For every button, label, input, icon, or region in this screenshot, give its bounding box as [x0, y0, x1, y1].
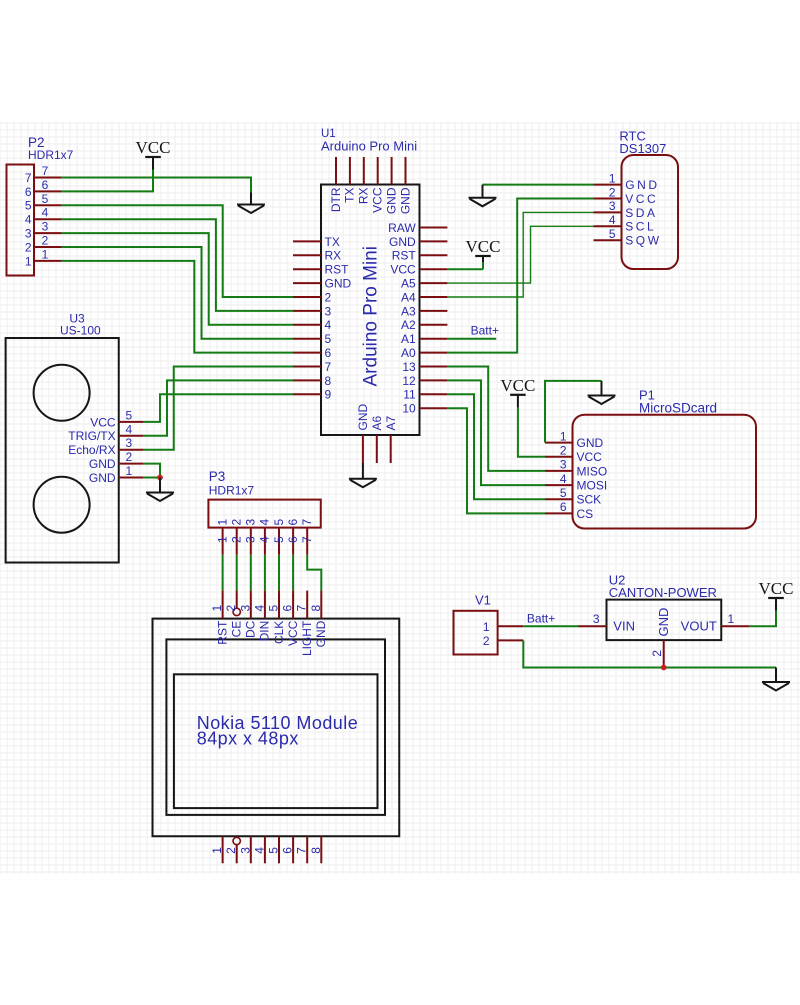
- U1 top pin GND: [398, 157, 412, 214]
- U1 right pin 10: [402, 402, 447, 416]
- svg-text:1: 1: [42, 247, 49, 261]
- U3 pin 4 TRIG/TX: [68, 422, 143, 443]
- LCD top pin 7 LIGHT: [295, 591, 314, 656]
- svg-text:8: 8: [325, 374, 332, 388]
- P2 pin 4 (stub + numbers): [25, 206, 62, 227]
- svg-text:Arduino Pro Mini: Arduino Pro Mini: [321, 138, 417, 153]
- svg-text:2: 2: [224, 847, 238, 854]
- P2 pin 1 (stub + numbers): [25, 247, 62, 268]
- P1 pin 1 GND: [545, 429, 604, 450]
- wire U1 GND pin to ground: [362, 463, 364, 478]
- svg-text:GND: GND: [398, 187, 412, 214]
- wire U3 GND pin2 to junction: [144, 464, 160, 478]
- svg-text:Echo/RX: Echo/RX: [68, 443, 115, 457]
- svg-text:1: 1: [25, 254, 32, 268]
- svg-text:VOUT: VOUT: [681, 619, 717, 634]
- wire RTC VCC to U1 A0: [447, 199, 593, 353]
- svg-text:GND: GND: [89, 471, 116, 485]
- svg-text:GND: GND: [314, 620, 328, 647]
- U3 pin 1 GND: [89, 464, 144, 485]
- svg-text:A6: A6: [370, 415, 384, 430]
- svg-text:Arduino Pro Mini: Arduino Pro Mini: [361, 246, 382, 386]
- svg-text:7: 7: [295, 847, 309, 854]
- U1 bottom pin GND: [356, 404, 370, 464]
- LCD middle frame: [166, 639, 385, 815]
- svg-text:CE: CE: [230, 621, 244, 638]
- wire U3 VCC to U1 pin 9: [144, 394, 293, 422]
- svg-text:DC: DC: [244, 620, 258, 638]
- svg-text:3: 3: [593, 612, 600, 626]
- LCD bottom pin 4: [252, 836, 266, 863]
- svg-text:7: 7: [295, 605, 309, 612]
- svg-text:VCC: VCC: [136, 138, 171, 157]
- IC RTC DS1307: [619, 129, 678, 269]
- svg-text:VCC: VCC: [466, 237, 501, 256]
- svg-text:GND: GND: [356, 404, 370, 431]
- svg-text:A3: A3: [401, 304, 416, 318]
- wire U1 VCC pin to VCC symbol: [447, 256, 483, 269]
- svg-text:2: 2: [560, 444, 567, 458]
- wire P1 GND up to ground: [545, 381, 602, 443]
- connector P3 HDR1x7: [208, 469, 320, 527]
- svg-text:VIN: VIN: [613, 619, 635, 634]
- P2 pin 5 (stub + numbers): [25, 192, 62, 213]
- svg-text:GND: GND: [384, 187, 398, 214]
- svg-text:5: 5: [126, 408, 133, 422]
- svg-text:VCC: VCC: [500, 376, 535, 395]
- ground symbol (P1 GND): [588, 381, 616, 404]
- svg-text:6: 6: [42, 178, 49, 192]
- svg-text:7: 7: [300, 519, 314, 526]
- svg-text:1: 1: [609, 171, 616, 185]
- svg-text:7: 7: [300, 536, 314, 543]
- wire RTC GND to ground: [483, 184, 594, 186]
- junction (U2 GND / ground rail): [661, 665, 667, 671]
- wire V1 pin 1 to U2 VIN (Batt+): [523, 625, 578, 627]
- svg-text:3: 3: [42, 220, 49, 234]
- svg-text:SDA: SDA: [625, 206, 657, 220]
- U1 right pin GND: [389, 235, 447, 249]
- P3 pin 3 (stub + numbers): [244, 519, 258, 555]
- svg-text:TRIG/TX: TRIG/TX: [68, 429, 115, 443]
- U1 top pin VCC: [371, 157, 385, 213]
- svg-text:12: 12: [402, 374, 416, 388]
- U1 left pin 4: [293, 318, 332, 332]
- wire U2 VOUT to VCC: [749, 598, 776, 626]
- U1 left pin 3: [293, 304, 332, 318]
- svg-text:2: 2: [230, 536, 244, 543]
- U1 left pin 8: [293, 374, 332, 388]
- U1 right pin 11: [403, 388, 447, 402]
- wire V1 pin 2 to ground rail: [523, 640, 776, 667]
- svg-text:VCC: VCC: [577, 450, 603, 464]
- LCD bottom pin 8: [309, 836, 323, 863]
- svg-text:6: 6: [281, 605, 295, 612]
- svg-text:TX: TX: [343, 188, 357, 203]
- LCD bottom pin 6: [281, 836, 295, 863]
- svg-text:5: 5: [560, 486, 567, 500]
- U1 left pin RST: [293, 263, 349, 277]
- svg-text:HDR1x7: HDR1x7: [28, 148, 74, 162]
- svg-text:4: 4: [325, 318, 332, 332]
- U1 right pin A0: [401, 346, 447, 360]
- U1 left pin 9: [293, 388, 332, 402]
- U1 right pin A3: [401, 304, 447, 318]
- wire P3 pin 5 to LCD pin 5: [278, 555, 280, 591]
- svg-text:3: 3: [25, 227, 32, 241]
- LCD top pin 4 DIN: [252, 591, 271, 642]
- svg-text:3: 3: [560, 458, 567, 472]
- module U3 US-100 ultrasonic sensor: [6, 312, 119, 563]
- svg-text:4: 4: [252, 605, 266, 612]
- svg-text:7: 7: [325, 360, 332, 374]
- P1 pin 3 MISO: [545, 458, 607, 479]
- wire P2 to U1 pin 4: [62, 233, 293, 325]
- power symbol VCC (net to P2 pin 6): [136, 138, 171, 170]
- svg-text:2: 2: [650, 650, 664, 657]
- svg-text:4: 4: [560, 472, 567, 486]
- svg-text:SCK: SCK: [577, 493, 602, 507]
- svg-text:DTR: DTR: [329, 187, 343, 212]
- U1 left pin GND: [293, 277, 352, 291]
- svg-text:A7: A7: [384, 415, 398, 430]
- wire U3 Echo/RX to U1 pin 7: [144, 367, 293, 450]
- U3 pin 3 Echo/RX: [68, 436, 144, 457]
- LCD bottom pin 1: [210, 836, 224, 863]
- svg-text:6: 6: [25, 185, 32, 199]
- svg-text:7: 7: [42, 164, 49, 178]
- svg-text:VCC: VCC: [759, 579, 794, 598]
- ground symbol (U3 GND): [146, 478, 174, 502]
- U1 right pin RAW: [388, 221, 447, 235]
- P1 pin 2 VCC: [545, 444, 602, 465]
- svg-text:GND: GND: [656, 608, 671, 637]
- svg-text:VCC: VCC: [90, 415, 116, 429]
- svg-text:RAW: RAW: [388, 221, 416, 235]
- RTC pin 4 SCL: [594, 213, 657, 234]
- V1 pin 1: [483, 620, 523, 634]
- LCD bottom pin 5: [267, 836, 281, 863]
- wire U1 pin 11 to P1 SCK: [447, 394, 545, 499]
- U3 pin 2 GND: [89, 450, 144, 471]
- svg-text:RX: RX: [357, 188, 371, 205]
- wire P2 to U1 pin 6: [62, 261, 293, 353]
- svg-text:1: 1: [215, 536, 229, 543]
- svg-text:2: 2: [224, 605, 238, 612]
- svg-text:4: 4: [609, 213, 616, 227]
- svg-text:2: 2: [325, 290, 332, 304]
- junction (U3 GND): [157, 475, 163, 481]
- svg-text:6: 6: [560, 500, 567, 514]
- svg-text:MISO: MISO: [577, 464, 608, 478]
- LCD caption text: [197, 713, 358, 749]
- svg-text:84px x 48px: 84px x 48px: [197, 729, 299, 749]
- svg-text:13: 13: [402, 360, 416, 374]
- svg-text:CLK: CLK: [272, 621, 286, 644]
- U3 transducer circle top: [34, 365, 90, 421]
- wire U3 GND pin1 to junction: [144, 477, 160, 479]
- LCD top pin 5 CLK: [267, 591, 286, 644]
- svg-text:1: 1: [210, 847, 224, 854]
- RTC pin 1 GND: [594, 171, 660, 192]
- svg-text:11: 11: [403, 388, 416, 402]
- ground symbol (power rail): [762, 668, 790, 691]
- svg-text:1: 1: [215, 519, 229, 526]
- svg-text:A0: A0: [401, 346, 416, 360]
- module LCD Nokia 5110 outer frame: [153, 619, 400, 837]
- svg-text:8: 8: [309, 605, 323, 612]
- wire U1 pin 13 to P1 MISO: [447, 367, 545, 471]
- svg-text:8: 8: [309, 847, 323, 854]
- svg-text:9: 9: [325, 388, 332, 402]
- U1 bottom pin A7: [384, 415, 398, 463]
- LCD top pin 2 CE: [224, 591, 243, 638]
- ground symbol (P2 pin 7): [237, 193, 265, 214]
- RTC pin 2 VCC: [594, 185, 659, 206]
- svg-text:3: 3: [244, 519, 258, 526]
- P1 pin 5 SCK: [545, 486, 601, 507]
- svg-text:GND: GND: [325, 277, 352, 291]
- U1 left pin 6: [293, 346, 332, 360]
- wire P3 pin 6 to LCD pin 6: [292, 555, 294, 591]
- svg-text:2: 2: [42, 234, 49, 248]
- svg-text:RST: RST: [392, 249, 417, 263]
- svg-text:VCC: VCC: [390, 263, 416, 277]
- wire P3 pin 3 to LCD pin 3: [250, 555, 252, 591]
- svg-text:1: 1: [560, 429, 567, 443]
- svg-text:3: 3: [244, 536, 258, 543]
- svg-text:6: 6: [286, 519, 300, 526]
- svg-text:4: 4: [126, 422, 133, 436]
- background grid: [0, 122, 800, 874]
- svg-text:3: 3: [238, 847, 252, 854]
- svg-text:LIGHT: LIGHT: [300, 620, 314, 656]
- svg-text:CS: CS: [577, 507, 594, 521]
- wire P3 pin 2 to LCD pin 2: [236, 555, 238, 591]
- svg-text:SCL: SCL: [625, 220, 656, 234]
- svg-text:2: 2: [230, 519, 244, 526]
- U1 right pin A4: [401, 290, 447, 304]
- ground symbol (U1 GND): [349, 479, 377, 488]
- P3 pin 1 (stub + numbers): [215, 519, 229, 555]
- LCD top pin 1 RST: [210, 591, 229, 645]
- V1 pin 2: [483, 634, 523, 648]
- U1 right pin A5: [401, 277, 447, 291]
- svg-text:3: 3: [609, 199, 616, 213]
- svg-text:4: 4: [258, 519, 272, 526]
- P2 pin 6 (stub + numbers): [25, 178, 62, 199]
- svg-text:VCC: VCC: [371, 187, 385, 213]
- U1 right pin A1: [401, 332, 447, 346]
- svg-text:DS1307: DS1307: [619, 141, 666, 156]
- IC U1 Arduino Pro Mini: [321, 128, 420, 435]
- connector P1 MicroSDcard: [573, 388, 757, 529]
- U1 right pin VCC: [390, 263, 447, 277]
- svg-text:RST: RST: [325, 263, 350, 277]
- svg-text:3: 3: [126, 436, 133, 450]
- wire P2 to U1 pin 5: [62, 247, 293, 339]
- svg-text:5: 5: [42, 192, 49, 206]
- wire P3 pin 1 to LCD pin 1: [222, 555, 224, 591]
- P2 pin 2 (stub + numbers): [25, 234, 62, 255]
- svg-text:GND: GND: [577, 436, 604, 450]
- P3 pin 6 (stub + numbers): [286, 519, 300, 555]
- svg-text:4: 4: [42, 206, 49, 220]
- wire P2 to U1 pin 3: [62, 219, 293, 311]
- svg-text:4: 4: [258, 536, 272, 543]
- svg-text:Batt+: Batt+: [527, 611, 555, 625]
- U3 transducer circle bottom: [34, 477, 90, 533]
- wire P1 VCC to VCC symbol: [518, 395, 545, 457]
- U1 top pin GND: [384, 157, 398, 214]
- svg-text:1: 1: [483, 620, 490, 634]
- svg-text:A2: A2: [401, 318, 416, 332]
- U1 left pin 2: [293, 290, 332, 304]
- LCD top pin 3 DC: [238, 591, 257, 638]
- wire U1 pin 10 to P1 CS: [447, 408, 545, 513]
- U1 top pin RX: [357, 157, 371, 204]
- LCD bottom pin 7: [295, 836, 309, 863]
- svg-text:5: 5: [325, 332, 332, 346]
- LCD top pin 8 GND: [309, 591, 328, 648]
- svg-text:2: 2: [483, 634, 490, 648]
- svg-text:4: 4: [25, 213, 32, 227]
- svg-text:7: 7: [25, 171, 32, 185]
- svg-text:GND: GND: [389, 235, 416, 249]
- svg-text:5: 5: [272, 519, 286, 526]
- svg-text:3: 3: [238, 605, 252, 612]
- RTC pin 3 SDA: [594, 199, 658, 220]
- wire P3 pin 7 to LCD pin 8 (jog): [307, 555, 321, 591]
- LCD bottom pin 2: [224, 837, 240, 863]
- connector P2 HDR1x7: [7, 135, 74, 276]
- P3 pin 2 (stub + numbers): [230, 519, 244, 555]
- svg-text:Batt+: Batt+: [471, 324, 499, 338]
- ground symbol (RTC GND): [469, 185, 497, 207]
- svg-text:5: 5: [267, 605, 281, 612]
- P1 pin 4 MOSI: [545, 472, 607, 493]
- svg-text:VCC: VCC: [625, 192, 658, 206]
- wire U1 pin 12 to P1 MOSI: [447, 380, 545, 485]
- P1 pin 6 CS: [545, 500, 593, 521]
- P3 pin 5 (stub + numbers): [272, 519, 286, 555]
- svg-text:6: 6: [325, 346, 332, 360]
- svg-text:1: 1: [126, 464, 133, 478]
- svg-text:VCC: VCC: [286, 620, 300, 646]
- U1 right pin A2: [401, 318, 447, 332]
- wire RTC SDA to U1 A4 (thin): [447, 212, 593, 297]
- RTC pin 5 SQW: [594, 227, 662, 248]
- svg-text:1: 1: [728, 612, 735, 626]
- svg-text:10: 10: [402, 402, 416, 416]
- svg-text:V1: V1: [475, 593, 491, 608]
- svg-text:RX: RX: [325, 249, 342, 263]
- svg-text:A1: A1: [401, 332, 416, 346]
- U2 pin 1 VOUT stub: [721, 612, 749, 626]
- wire P2 to U1 pin 2: [62, 205, 293, 297]
- svg-text:3: 3: [325, 304, 332, 318]
- svg-text:SQW: SQW: [625, 234, 661, 248]
- svg-text:1: 1: [210, 605, 224, 612]
- P3 pin 7 (stub + numbers): [300, 519, 314, 555]
- svg-text:2: 2: [609, 185, 616, 199]
- LCD display area frame: [174, 674, 378, 808]
- U1 left pin TX: [293, 235, 340, 249]
- U1 left pin RX: [293, 249, 341, 263]
- svg-text:A5: A5: [401, 277, 416, 291]
- svg-text:6: 6: [286, 536, 300, 543]
- svg-text:MOSI: MOSI: [577, 479, 608, 493]
- P3 pin 4 (stub + numbers): [258, 519, 272, 555]
- svg-text:5: 5: [272, 536, 286, 543]
- svg-text:GND: GND: [89, 457, 116, 471]
- LCD bottom pin 3: [238, 836, 252, 863]
- wire U3 TRIG/TX to U1 pin 8: [144, 380, 293, 435]
- P2 pin 3 (stub + numbers): [25, 220, 62, 241]
- svg-text:2: 2: [126, 450, 133, 464]
- svg-text:DIN: DIN: [258, 621, 272, 642]
- U1 top pin DTR: [329, 157, 343, 212]
- svg-text:6: 6: [281, 847, 295, 854]
- wire RTC SCL to U1 A5 (thin): [447, 226, 593, 283]
- svg-text:GND: GND: [625, 178, 659, 192]
- wire P2 pin 7 to ground: [62, 178, 251, 193]
- svg-text:TX: TX: [325, 235, 340, 249]
- U1 right pin 13: [402, 360, 447, 374]
- svg-text:5: 5: [267, 847, 281, 854]
- svg-text:RST: RST: [215, 620, 229, 645]
- U1 right pin 12: [402, 374, 447, 388]
- U1 top pin TX: [343, 157, 357, 203]
- svg-text:HDR1x7: HDR1x7: [209, 483, 255, 497]
- svg-text:MicroSDcard: MicroSDcard: [639, 401, 717, 416]
- U2 pin 3 VIN stub: [579, 612, 607, 626]
- wire VCC to P2 pin 6: [62, 170, 153, 192]
- regulator U2 CANTON-POWER: [607, 573, 722, 641]
- P2 pin 7 (stub + numbers): [25, 164, 62, 185]
- svg-text:5: 5: [25, 199, 32, 213]
- connector V1: [454, 593, 498, 655]
- LCD top pin 6 VCC: [281, 591, 300, 646]
- svg-text:5: 5: [609, 227, 616, 241]
- U1 right pin RST: [392, 249, 448, 263]
- svg-text:A4: A4: [401, 290, 416, 304]
- svg-text:2: 2: [25, 240, 32, 254]
- wire P3 pin 4 to LCD pin 4: [264, 555, 266, 591]
- U3 pin 5 VCC: [90, 408, 143, 429]
- svg-text:P3: P3: [209, 469, 226, 484]
- U1 left pin 7: [293, 360, 332, 374]
- svg-text:US-100: US-100: [60, 323, 101, 337]
- svg-text:4: 4: [252, 847, 266, 854]
- svg-text:CANTON-POWER: CANTON-POWER: [609, 585, 717, 600]
- wire U1 A1 Batt+ stub: [447, 338, 496, 340]
- U1 left pin 5: [293, 332, 332, 346]
- U2 pin 2 GND stub: [650, 640, 664, 667]
- U1 bottom pin A6: [370, 415, 384, 463]
